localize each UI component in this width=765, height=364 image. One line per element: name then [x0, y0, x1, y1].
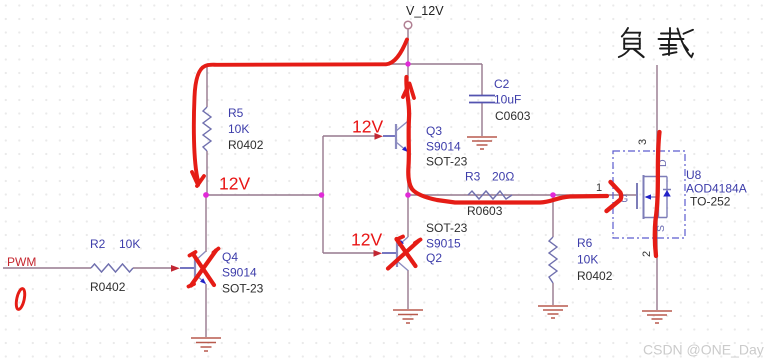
svg-text:12V: 12V: [352, 117, 383, 137]
svg-text:TO-252: TO-252: [690, 195, 731, 209]
svg-text:AOD4184A: AOD4184A: [686, 182, 747, 196]
svg-text:S9014: S9014: [426, 140, 461, 154]
svg-text:12V: 12V: [351, 230, 382, 250]
svg-text:SOT-23: SOT-23: [426, 221, 468, 235]
svg-text:10K: 10K: [119, 237, 140, 251]
svg-text:R3: R3: [465, 170, 481, 184]
svg-text:Q3: Q3: [426, 124, 442, 138]
svg-text:2: 2: [641, 251, 653, 257]
svg-text:SOT-23: SOT-23: [222, 282, 264, 296]
svg-text:10uF: 10uF: [494, 93, 521, 107]
svg-text:PWM: PWM: [7, 255, 36, 269]
svg-text:R5: R5: [228, 106, 244, 120]
svg-text:S9014: S9014: [222, 266, 257, 280]
svg-text:U8: U8: [686, 168, 702, 182]
svg-text:V_12V: V_12V: [406, 4, 444, 18]
svg-text:C2: C2: [494, 77, 510, 91]
svg-text:12V: 12V: [219, 174, 250, 194]
svg-text:R2: R2: [90, 237, 106, 251]
svg-text:3: 3: [637, 139, 649, 145]
svg-text:10K: 10K: [228, 122, 249, 136]
svg-text:R6: R6: [577, 236, 593, 250]
svg-text:SOT-23: SOT-23: [426, 155, 468, 169]
svg-text:C0603: C0603: [495, 109, 531, 123]
svg-text:R0402: R0402: [577, 269, 613, 283]
svg-text:R0603: R0603: [467, 204, 503, 218]
svg-text:1: 1: [596, 182, 602, 194]
svg-text:Q4: Q4: [222, 250, 238, 264]
svg-text:Q2: Q2: [426, 251, 442, 265]
svg-text:R0402: R0402: [90, 280, 126, 294]
svg-text:10K: 10K: [577, 253, 598, 267]
svg-text:S9015: S9015: [426, 237, 461, 251]
svg-text:20Ω: 20Ω: [492, 170, 514, 184]
svg-text:R0402: R0402: [228, 138, 264, 152]
svg-text:CSDN @ONE_Day|: CSDN @ONE_Day|: [643, 342, 765, 358]
